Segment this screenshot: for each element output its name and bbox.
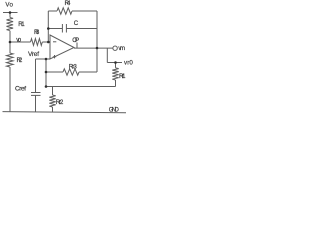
svg-text:vo: vo	[16, 37, 22, 44]
svg-text:Rr3: Rr3	[69, 64, 78, 71]
svg-text:vm: vm	[118, 45, 125, 52]
svg-text:GND: GND	[109, 108, 120, 114]
svg-text:Vref: Vref	[28, 51, 39, 58]
svg-text:Cref: Cref	[15, 85, 26, 92]
svg-text:R2: R2	[17, 57, 23, 64]
svg-text:vr0: vr0	[124, 59, 133, 66]
svg-text:Rr1: Rr1	[119, 73, 126, 80]
svg-text:OP: OP	[72, 37, 79, 44]
svg-text:R1: R1	[18, 21, 25, 28]
svg-text:Rr2: Rr2	[56, 99, 64, 106]
svg-text:R3: R3	[34, 29, 40, 36]
svg-text:Vo: Vo	[5, 1, 13, 8]
svg-text:C: C	[74, 20, 79, 27]
svg-text:R4: R4	[65, 0, 72, 7]
